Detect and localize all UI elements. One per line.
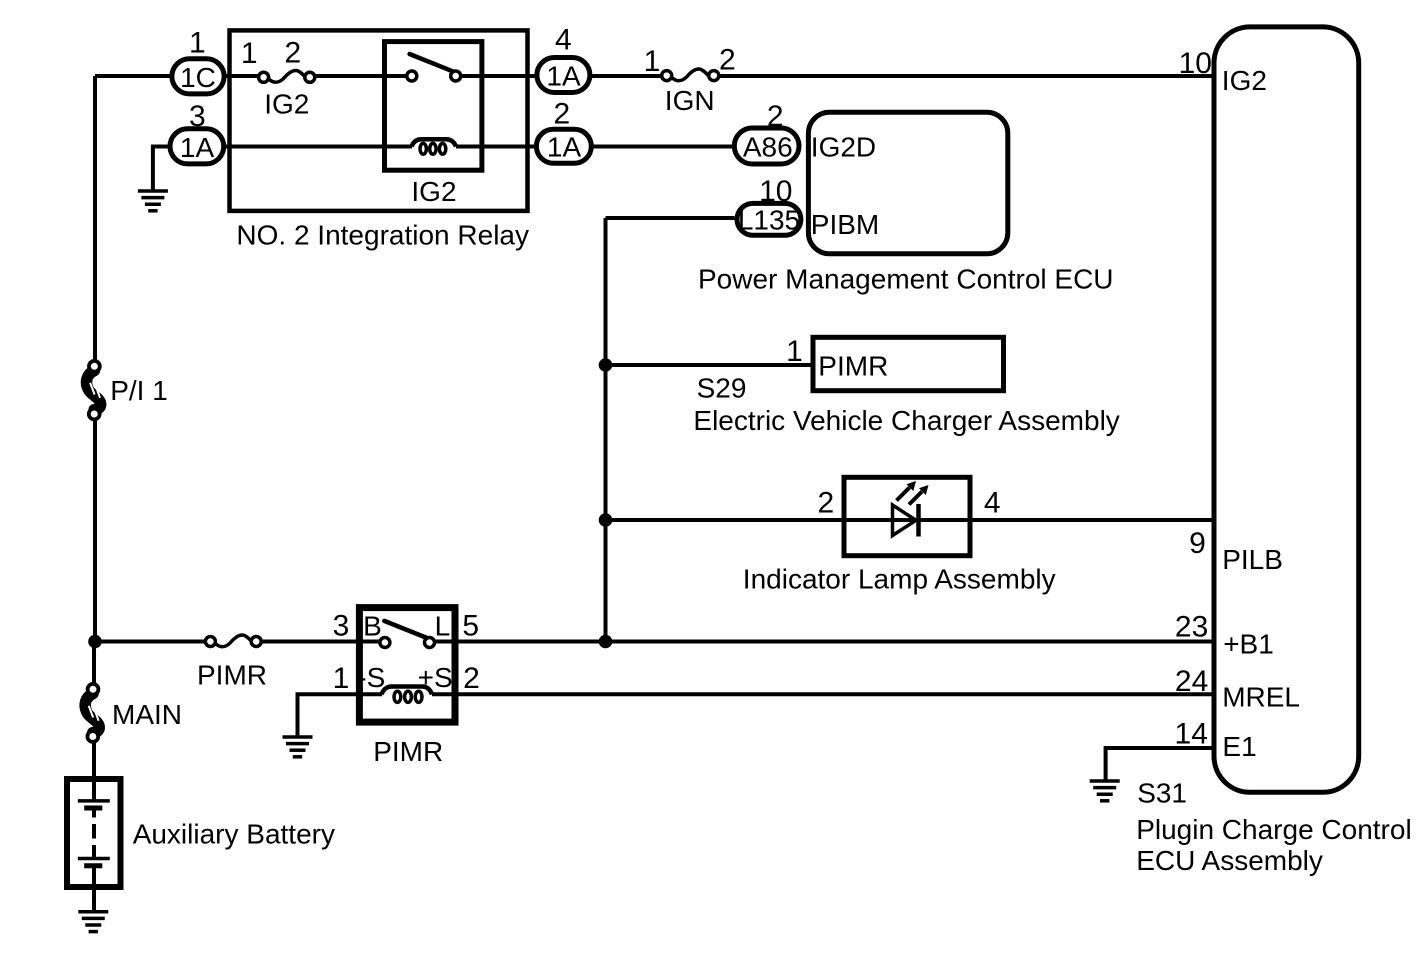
svg-text:P/I 1: P/I 1 — [110, 375, 168, 406]
svg-text:23: 23 — [1175, 611, 1208, 644]
svg-text:1A: 1A — [547, 132, 582, 163]
svg-text:ECU Assembly: ECU Assembly — [1136, 845, 1323, 876]
fuse PIMR — [205, 635, 261, 647]
svg-text:3: 3 — [333, 610, 350, 643]
svg-text:IG2D: IG2D — [811, 132, 876, 163]
svg-text:2: 2 — [463, 662, 480, 695]
svg-text:L135: L135 — [738, 204, 800, 235]
relay coil IG2 — [412, 139, 457, 154]
Plugin Charge Control ECU Assembly box — [1214, 27, 1359, 792]
wire: E1 row to ground S31 — [1106, 748, 1214, 781]
svg-text:PIMR: PIMR — [197, 660, 267, 691]
svg-text:3: 3 — [189, 100, 206, 133]
svg-text:IG2: IG2 — [1222, 65, 1267, 96]
node: junction mid bus / indicator lamp row — [599, 513, 613, 527]
svg-text:10: 10 — [1179, 47, 1212, 80]
svg-text:PIMR: PIMR — [818, 350, 888, 381]
fuse IGN — [662, 69, 719, 81]
wire: bottom bus PIMR relay switch to +B1 pin 23 — [435, 640, 1214, 644]
wire: L135 horizontal to mid bus — [606, 216, 735, 220]
svg-text:1A: 1A — [180, 132, 215, 163]
svg-text:+S: +S — [418, 662, 453, 693]
svg-text:1: 1 — [241, 37, 258, 70]
svg-text:1C: 1C — [180, 62, 216, 93]
wire: battery to ground — [92, 866, 96, 912]
svg-text:5: 5 — [462, 610, 479, 643]
wire: MREL row PIMR relay coil to MREL pin 24 — [432, 692, 1214, 696]
wire: left bus vertical from top row to P/I 1 — [93, 76, 97, 366]
wire: row2 segment to relay coil — [168, 145, 412, 149]
wire: ground stub to PIMR relay coil pin 1 — [298, 694, 383, 737]
svg-text:2: 2 — [817, 486, 834, 519]
svg-text:9: 9 — [1189, 527, 1206, 560]
connector oval 1C pin 1 — [172, 59, 224, 94]
node: junction left bus / bottom bus — [88, 635, 102, 649]
svg-text:1A: 1A — [546, 61, 581, 92]
auxiliary battery — [67, 779, 121, 887]
fuse IG2 (in relay) — [259, 71, 315, 83]
wire: bottom bus PIMR fuse to PIMR relay switch — [261, 640, 379, 644]
svg-text:E1: E1 — [1222, 731, 1256, 762]
ground (relay pin 3) — [138, 191, 168, 211]
svg-text:2: 2 — [719, 43, 736, 76]
Power Management Control ECU box — [808, 112, 1007, 254]
wire: indicator lamp row from mid bus to PILB pin 9 — [606, 518, 1215, 522]
connector oval 1A pin 4 — [537, 58, 590, 93]
connector oval 1A pin 3 — [170, 129, 224, 164]
PIMR relay box — [359, 608, 455, 723]
svg-text:10: 10 — [759, 175, 792, 208]
svg-text:IG2: IG2 — [264, 89, 309, 120]
fusible link P/I 1 — [87, 361, 101, 420]
relay box NO.2 Integration Relay — [230, 30, 528, 211]
svg-text:IG2: IG2 — [411, 176, 456, 207]
svg-text:MREL: MREL — [1222, 682, 1300, 713]
wire: EV charger row from mid bus to PIMR box pin 1 — [606, 363, 814, 367]
wire: bottom bus from left bus to PIMR fuse — [95, 640, 206, 644]
svg-text:PILB: PILB — [1222, 544, 1283, 575]
svg-text:Indicator Lamp Assembly: Indicator Lamp Assembly — [743, 564, 1056, 595]
connector oval 1A pin 2 — [536, 129, 591, 163]
svg-text:Power Management Control ECU: Power Management Control ECU — [698, 264, 1114, 295]
svg-text:1: 1 — [786, 335, 803, 368]
svg-text:2: 2 — [285, 37, 302, 70]
svg-text:MAIN: MAIN — [112, 699, 182, 730]
svg-text:1: 1 — [333, 662, 350, 695]
wire: ground stub of relay pin 3 — [153, 147, 170, 192]
node: junction mid bus / EV charger row — [599, 358, 613, 372]
indicator lamp assembly box — [844, 477, 970, 555]
svg-text:14: 14 — [1175, 718, 1208, 751]
svg-text:2: 2 — [767, 100, 784, 133]
relay switch IG2 — [407, 54, 461, 81]
svg-text:PIMR: PIMR — [373, 736, 443, 767]
svg-text:1: 1 — [644, 45, 661, 78]
wire: row1 segment IGN fuse to Plugin Charge Control ECU pin 10 — [720, 74, 1215, 78]
svg-text:4: 4 — [555, 24, 572, 57]
svg-text:A86: A86 — [743, 132, 793, 163]
ground (PIMR relay coil) — [283, 737, 313, 757]
connector oval A86 pin 2 — [734, 128, 799, 164]
svg-text:S29: S29 — [697, 372, 747, 403]
svg-text:PIBM: PIBM — [811, 209, 879, 240]
wire: left bus MAIN to battery — [92, 736, 96, 801]
PIMR relay coil — [382, 687, 433, 703]
svg-text:Auxiliary Battery: Auxiliary Battery — [133, 818, 335, 849]
svg-text:NO. 2 Integration Relay: NO. 2 Integration Relay — [236, 220, 529, 251]
svg-text:2: 2 — [553, 98, 570, 131]
ground (battery) — [78, 912, 108, 932]
wire: mid bus vertical — [604, 218, 608, 642]
wire: row1 segment relay switch to right ECU box (through IGN fuse gap) — [461, 74, 661, 78]
PIMR relay switch — [380, 621, 435, 648]
wire: row1 segment left bus to IG2 fuse — [95, 74, 259, 78]
svg-text:Plugin Charge Control: Plugin Charge Control — [1136, 814, 1412, 845]
node: junction mid bus / bottom bus — [599, 635, 613, 649]
EV charger PIMR box — [813, 337, 1004, 390]
svg-text:24: 24 — [1175, 665, 1208, 698]
svg-text:-S: -S — [357, 662, 385, 693]
svg-text:S31: S31 — [1137, 778, 1187, 809]
fusible link MAIN — [85, 684, 99, 742]
connector oval L135 pin 10 — [737, 203, 801, 235]
svg-text:1: 1 — [189, 26, 206, 59]
svg-text:L: L — [435, 611, 451, 642]
svg-text:B: B — [363, 611, 382, 642]
wire: left bus lower vertical to MAIN — [92, 642, 96, 689]
wire: left bus vertical from P/I 1 to bottom bus — [93, 414, 97, 642]
wire: row2 segment relay coil to A86 — [456, 145, 734, 149]
svg-text:4: 4 — [984, 486, 1001, 519]
svg-text:IGN: IGN — [665, 85, 715, 116]
svg-text:Electric Vehicle Charger Assem: Electric Vehicle Charger Assembly — [693, 405, 1119, 436]
LED indicator lamp — [893, 481, 929, 537]
wire: row1 segment IG2 fuse to relay switch — [315, 74, 407, 78]
ground S31 — [1090, 781, 1120, 801]
relay inner box IG2 relay — [385, 42, 482, 171]
svg-text:+B1: +B1 — [1223, 628, 1274, 659]
